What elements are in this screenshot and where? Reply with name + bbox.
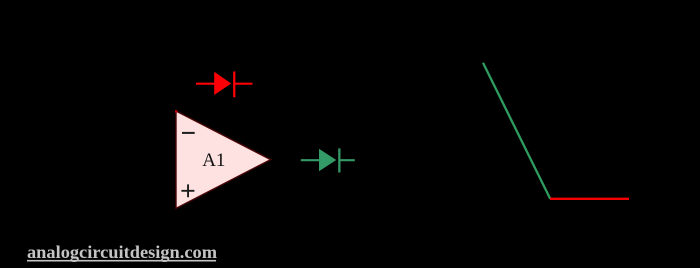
- svg-text:analogcircuitdesign.com: analogcircuitdesign.com: [27, 242, 217, 262]
- node: feedback tap at op-amp top vertex (red dot): [175, 110, 177, 112]
- diode D1 anode wire (red): [196, 83, 216, 85]
- op-amp A1 inverting input mark "-": [182, 132, 195, 134]
- graph y-axis (black on black): [549, 52, 551, 232]
- svg-text:A1: A1: [202, 150, 225, 171]
- diode D1 cathode wire: [233, 83, 253, 85]
- diode D2 anode wire (green): [301, 159, 321, 161]
- wire: non-inverting input (black on black): [80, 192, 176, 194]
- graph x-axis (black on black): [450, 198, 660, 200]
- op-amp A1 body: [176, 111, 271, 208]
- diode D2 triangle (green, output diode): [319, 149, 336, 171]
- watermark link: analogcircuitdesign.com: [27, 242, 217, 262]
- transfer curve: active segment (green): [483, 63, 550, 199]
- wire: feedback left segment (black on black): [155, 84, 196, 133]
- transfer curve: saturation segment (red): [550, 198, 629, 200]
- diode D1 triangle (red, feedback diode): [214, 72, 231, 95]
- wire: feedback right segment (black on black): [252, 84, 273, 160]
- diode D1 cathode bar: [233, 72, 235, 98]
- op-amp A1 non-inverting input mark "+": [181, 184, 194, 197]
- diode D2 cathode wire: [339, 159, 355, 161]
- diode D2 cathode bar: [338, 148, 340, 172]
- wire: op-amp output to diode D2 (black on black): [271, 159, 303, 161]
- wire: input to inverting input (black on black): [80, 132, 176, 134]
